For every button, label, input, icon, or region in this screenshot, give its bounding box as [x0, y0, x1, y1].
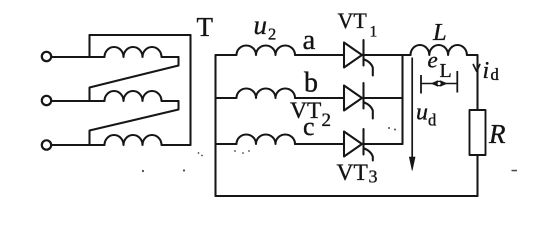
svg-text:2: 2	[322, 110, 332, 131]
wire R to bottom	[476, 155, 478, 196]
svg-text:u: u	[416, 100, 428, 126]
wire phase c to VT3 anode	[295, 143, 344, 145]
arrow id annotation	[473, 65, 480, 72]
wire delta top	[90, 34, 191, 36]
thyristor VT2	[344, 83, 373, 119]
svg-text:3: 3	[369, 167, 378, 187]
transformer T secondary winding a	[216, 46, 296, 56]
wire common cathode bus	[401, 55, 403, 144]
svg-text:b: b	[304, 68, 318, 99]
svg-text:e: e	[428, 48, 438, 73]
svg-text:d: d	[491, 65, 500, 84]
dimension eL annotation	[421, 71, 457, 94]
transformer T primary winding 2	[90, 91, 179, 101]
svg-text:2: 2	[268, 25, 276, 44]
transformer T secondary winding b	[216, 89, 296, 99]
svg-text:T: T	[197, 12, 214, 42]
wire phase b to VT2 anode	[295, 97, 344, 99]
terminal phase A input	[42, 52, 51, 61]
svg-text:R: R	[488, 119, 506, 149]
arrow ud annotation	[409, 58, 415, 171]
wire VT2 cathode to bus	[364, 97, 403, 99]
wire riser node 1 to top	[88, 35, 90, 57]
wire secondary star bus	[214, 55, 216, 196]
svg-text:L: L	[432, 19, 447, 46]
svg-text:a: a	[303, 24, 316, 56]
svg-text:1: 1	[370, 24, 378, 41]
svg-text:VT: VT	[290, 98, 321, 124]
wire delta diagonal 2	[90, 101, 179, 145]
inductor L	[411, 45, 467, 55]
svg-text:L: L	[440, 60, 452, 82]
transformer T primary winding 1	[90, 47, 179, 57]
svg-text:i: i	[483, 58, 490, 84]
svg-text:u: u	[254, 10, 268, 40]
wire	[51, 100, 89, 102]
thyristor VT1	[344, 40, 373, 76]
resistor R	[470, 110, 486, 155]
wire delta diagonal 1	[90, 57, 179, 101]
wire	[51, 144, 89, 146]
wire	[51, 56, 89, 58]
wire L to load corner	[467, 55, 478, 110]
wire VT3 cathode to bus	[364, 143, 403, 145]
wire phase a to VT1 anode	[295, 54, 344, 56]
transformer T secondary winding c	[216, 135, 296, 145]
transformer T primary winding 3	[90, 135, 191, 145]
svg-text:VT: VT	[337, 160, 368, 186]
wire VT1 cathode to node K	[364, 54, 411, 56]
terminal phase B input	[42, 96, 51, 105]
wire bottom return	[216, 195, 478, 197]
svg-text:d: d	[428, 111, 437, 130]
wire delta right edge	[189, 35, 191, 145]
svg-text:VT: VT	[338, 8, 368, 33]
thyristor VT3	[344, 129, 373, 161]
scan speckles (decorative)	[142, 127, 517, 172]
terminal phase C input	[42, 140, 51, 149]
